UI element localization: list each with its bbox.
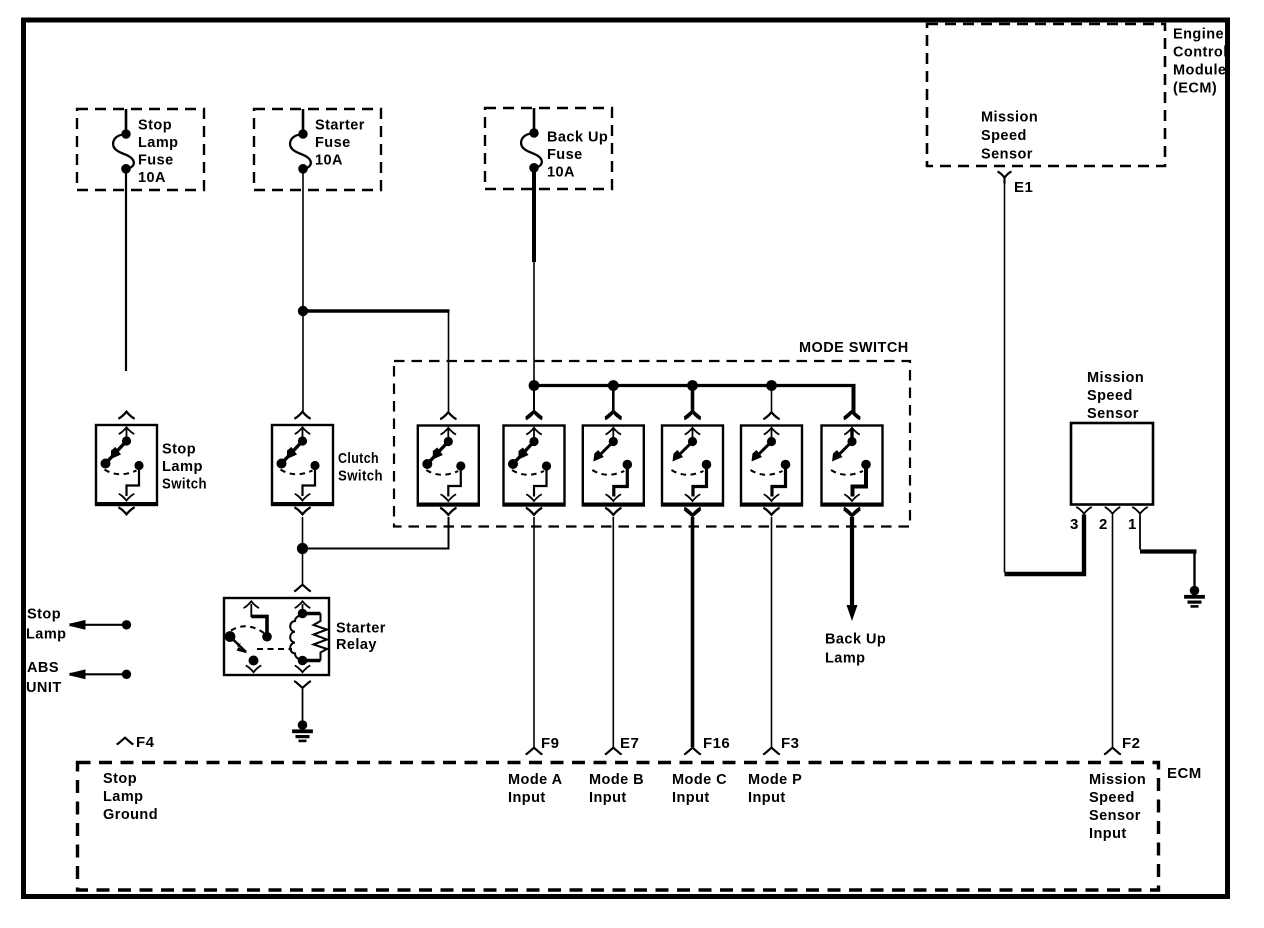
svg-text:Speed: Speed [1089, 790, 1135, 806]
svg-text:Mode P: Mode P [748, 772, 802, 788]
label Back Up Lamp [825, 632, 886, 667]
svg-text:10A: 10A [547, 165, 575, 181]
label Mode A Input [508, 772, 563, 806]
svg-text:1: 1 [1128, 516, 1137, 533]
relay contact fixed dot [262, 632, 272, 642]
relay coil parallel resistor [303, 612, 321, 616]
relay armature travel dashed arc [231, 626, 264, 633]
svg-text:F2: F2 [1122, 735, 1140, 752]
svg-text:Mission: Mission [1087, 370, 1144, 386]
wire starter-fuse down to junction [302, 190, 304, 311]
wire sensor pin 1 to ground [1139, 515, 1141, 550]
relay contact output dot [249, 656, 259, 666]
svg-text:10A: 10A [138, 170, 166, 186]
svg-text:Lamp: Lamp [825, 651, 865, 667]
connector F2 chevron [1104, 748, 1121, 755]
wire clutch junction to mode-switch-1 bottom [303, 517, 449, 549]
svg-text:Clutch: Clutch [338, 451, 379, 467]
svg-text:Stop: Stop [27, 607, 61, 623]
svg-text:Fuse: Fuse [138, 153, 174, 169]
wire stub bus to switch 3 [612, 386, 615, 412]
relay coil bottom chevron at box bottom [295, 666, 311, 673]
svg-text:Lamp: Lamp [26, 627, 66, 643]
sensor pin 3 chevron [1076, 507, 1092, 514]
svg-text:UNIT: UNIT [26, 680, 62, 696]
switch Clutch Switch [272, 412, 383, 515]
label Mission Speed Sensor (in ECM box) [981, 110, 1038, 163]
switch Stop Lamp Switch [96, 412, 207, 515]
svg-text:Input: Input [748, 790, 786, 806]
junction bus node at mode switch 2 [529, 380, 540, 391]
label Mode C Input [672, 772, 727, 806]
svg-text:Speed: Speed [981, 128, 1027, 144]
svg-text:E7: E7 [620, 735, 639, 752]
svg-text:Mode B: Mode B [589, 772, 644, 788]
svg-text:(ECM): (ECM) [1173, 81, 1217, 97]
svg-text:Switch: Switch [338, 469, 383, 485]
connector F9 chevron [526, 748, 543, 755]
relay contact feed L-wire [250, 604, 252, 617]
junction bus node at mode switch 3 [608, 380, 619, 391]
svg-text:Sensor: Sensor [981, 147, 1033, 163]
wire mode switch 6 to back up lamp (arrow) [850, 517, 854, 608]
label Mode B Input [589, 772, 644, 806]
relay coil top chevron inside box [295, 601, 311, 608]
svg-text:Speed: Speed [1087, 388, 1133, 404]
svg-text:Mission: Mission [981, 110, 1038, 126]
wire junction to mode-switch-1 top (thick bus) [303, 311, 449, 412]
junction clutch output node [297, 543, 308, 554]
svg-text:Fuse: Fuse [315, 135, 351, 151]
svg-text:Lamp: Lamp [162, 459, 203, 475]
svg-text:E1: E1 [1014, 179, 1033, 196]
MODE SWITCH dashed enclosure [394, 361, 910, 527]
svg-text:Back Up: Back Up [547, 130, 608, 146]
svg-text:F9: F9 [541, 735, 559, 752]
connector F3 chevron [763, 748, 780, 755]
wire relay to ground [302, 688, 304, 722]
ECM bottom dashed box [78, 763, 1159, 891]
wire back-up-fuse thin segment to bus [533, 262, 535, 386]
sensor Mission Speed Sensor box [1071, 423, 1153, 505]
connector starter relay coil top chevron [294, 585, 311, 592]
ground sensor pin 1 [1184, 586, 1205, 608]
wire sensor pin 3 thick to E1 net [1005, 515, 1085, 575]
svg-text:Starter: Starter [315, 118, 365, 134]
relay coil top wire and dot [302, 604, 304, 614]
connector E7 chevron [605, 748, 622, 755]
mode switch 1 [418, 412, 479, 515]
wire mode bus horizontal [534, 384, 856, 387]
svg-text:Engine: Engine [1173, 27, 1224, 43]
svg-text:Input: Input [589, 790, 627, 806]
svg-text:Mission: Mission [1089, 772, 1146, 788]
ECM top dashed box (Mission Speed Sensor inside ECM) [927, 24, 1165, 166]
wire sensor pin 2 down to F2 [1112, 515, 1114, 748]
svg-text:10A: 10A [315, 153, 343, 169]
connector E1 fork [998, 172, 1012, 184]
svg-text:F4: F4 [136, 734, 155, 751]
mode switch 3 [583, 412, 644, 515]
label Mission Speed Sensor (component) [1087, 370, 1144, 422]
svg-text:Relay: Relay [336, 637, 377, 653]
svg-text:Mode A: Mode A [508, 772, 563, 788]
sensor pin 2 chevron [1105, 507, 1121, 514]
wire mode switch 5 to F3 [771, 517, 773, 747]
junction bus node at mode switch 4 [687, 380, 698, 391]
label Starter Relay [336, 621, 386, 654]
svg-text:F16: F16 [703, 735, 730, 752]
svg-text:Switch: Switch [162, 477, 207, 493]
mode switch 5 [741, 412, 802, 515]
relay Starter Relay box [224, 598, 329, 675]
wire stub bus to switch 2 [533, 386, 535, 412]
label Stop Lamp Ground [103, 771, 158, 823]
svg-text:ABS: ABS [27, 660, 59, 676]
label Mode P Input [748, 772, 802, 806]
svg-text:Lamp: Lamp [138, 135, 178, 151]
fuse Stop Lamp Fuse 10A [77, 109, 204, 190]
label Engine Control Module (ECM) [1173, 27, 1228, 97]
mode switch 4 [662, 412, 723, 515]
mode switch 6 [822, 412, 883, 515]
svg-text:Fuse: Fuse [547, 147, 583, 163]
wire clutch switch to junction below [302, 517, 304, 549]
svg-text:Stop: Stop [138, 118, 172, 134]
svg-text:Lamp: Lamp [103, 789, 143, 805]
arrow to Stop Lamp [70, 620, 132, 630]
svg-text:Module: Module [1173, 63, 1226, 79]
svg-text:F3: F3 [781, 735, 799, 752]
wire mode switch 4 to F16 [691, 517, 695, 747]
label Mission Speed Sensor Input [1089, 772, 1146, 842]
svg-text:Ground: Ground [103, 807, 158, 823]
ground starter relay [292, 720, 313, 742]
svg-text:Sensor: Sensor [1089, 808, 1141, 824]
svg-text:Stop: Stop [162, 442, 196, 458]
relay armature pivot dot [225, 631, 236, 642]
sensor pin 1 chevron [1132, 507, 1148, 514]
relay coil bottom dot [298, 656, 308, 666]
label ABS UNIT [26, 660, 62, 696]
wire junction down to clutch switch [302, 311, 304, 412]
wire E1 down to sensor pin3 net [1004, 182, 1006, 573]
svg-text:2: 2 [1099, 516, 1108, 533]
svg-text:MODE SWITCH: MODE SWITCH [799, 340, 909, 356]
wire clutch junction down to starter relay [302, 549, 304, 585]
svg-text:Back Up: Back Up [825, 632, 886, 648]
relay armature arm with arrow [230, 637, 246, 653]
relay coil winding [290, 615, 302, 661]
wire stop-lamp-fuse to stop-lamp-switch [125, 190, 127, 371]
svg-text:Mode C: Mode C [672, 772, 727, 788]
fuse Back Up Fuse 10A [485, 108, 612, 190]
svg-text:Control: Control [1173, 45, 1228, 61]
fuse Starter Fuse 10A [254, 109, 381, 190]
svg-text:ECM: ECM [1167, 765, 1202, 782]
svg-text:3: 3 [1070, 516, 1079, 533]
wire mode switch 2 to F9 [533, 517, 535, 747]
connector below relay [294, 681, 311, 688]
wire back-up-fuse thick segment [532, 190, 536, 262]
relay contact pin chevron (top left inside) [244, 601, 260, 608]
svg-text:Input: Input [672, 790, 710, 806]
svg-text:Input: Input [1089, 826, 1127, 842]
connector F4 chevron [117, 738, 134, 745]
svg-text:Sensor: Sensor [1087, 406, 1139, 422]
svg-text:Stop: Stop [103, 771, 137, 787]
svg-text:Input: Input [508, 790, 546, 806]
wire stub bus to switch 5 [771, 386, 773, 412]
junction starter-fuse node [298, 306, 308, 316]
junction bus node at mode switch 5 [766, 380, 777, 391]
wire stub bus to switch 4 [691, 386, 695, 412]
mode switch 2 [504, 412, 565, 515]
svg-text:Starter: Starter [336, 621, 386, 637]
label Stop Lamp (left) [26, 607, 66, 643]
wire mode bus corner down to switch 6 [852, 386, 856, 412]
relay dashed link armature to coil [257, 648, 292, 650]
connector F16 chevron [684, 748, 701, 755]
relay contact output chevron at box bottom [246, 666, 262, 673]
arrow to ABS UNIT [70, 669, 132, 679]
wire mode switch 3 to E7 [612, 517, 614, 747]
